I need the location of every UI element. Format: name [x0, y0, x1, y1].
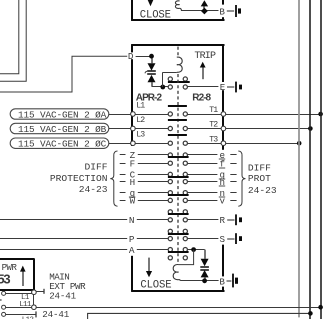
svg-text:53: 53 [0, 272, 10, 287]
svg-text:115 VAC-GEN 2 ØC: 115 VAC-GEN 2 ØC [18, 139, 107, 150]
svg-text:PROTECTION: PROTECTION [50, 173, 108, 184]
svg-text:TRIP: TRIP [194, 51, 216, 62]
svg-text:R2-8: R2-8 [192, 92, 211, 103]
svg-text:115 VAC-GEN 2 ØA: 115 VAC-GEN 2 ØA [18, 109, 107, 120]
svg-text:T1: T1 [209, 106, 218, 115]
svg-text:DIFF: DIFF [84, 162, 107, 173]
svg-text:24-23: 24-23 [79, 184, 108, 195]
svg-text:L1: L1 [136, 101, 145, 110]
svg-text:L3: L3 [136, 131, 145, 140]
svg-text:W: W [130, 196, 136, 207]
svg-text:R: R [220, 215, 226, 226]
svg-text:24-23: 24-23 [248, 185, 277, 196]
svg-text:F: F [130, 158, 136, 169]
svg-text:T3: T3 [209, 135, 218, 144]
svg-text:115 VAC-GEN 2 ØB: 115 VAC-GEN 2 ØB [18, 124, 107, 135]
svg-text:E: E [220, 82, 226, 93]
svg-text:24-41: 24-41 [42, 309, 69, 319]
svg-text:B: B [219, 6, 225, 17]
svg-text:L2: L2 [136, 116, 145, 125]
svg-text:P: P [129, 234, 135, 245]
svg-text:T2: T2 [209, 121, 218, 130]
svg-text:A: A [129, 245, 135, 256]
svg-text:H: H [130, 177, 136, 188]
svg-text:24-41: 24-41 [49, 291, 76, 302]
svg-text:N: N [129, 215, 135, 226]
svg-text:PROT: PROT [248, 173, 271, 184]
svg-text:DIFF: DIFF [248, 162, 271, 173]
svg-text:D: D [128, 51, 134, 62]
svg-text:B: B [219, 276, 225, 287]
svg-text:v: v [220, 196, 226, 207]
svg-text:CLOSE: CLOSE [140, 280, 171, 292]
svg-text:CLOSE: CLOSE [140, 10, 171, 22]
svg-text:S: S [220, 234, 226, 245]
